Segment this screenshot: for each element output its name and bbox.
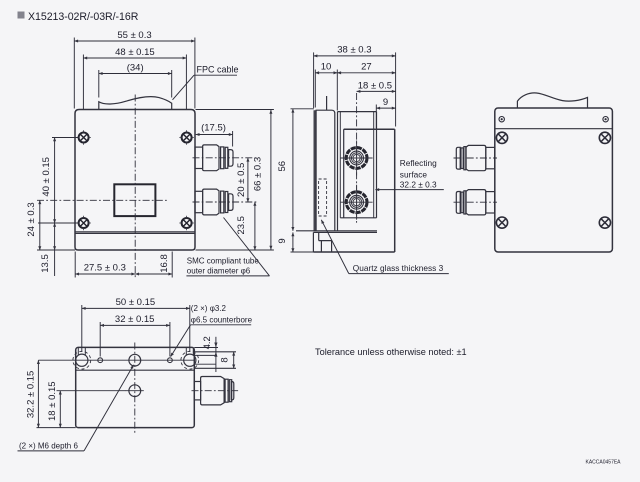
side fitting circle 1 [341,141,373,176]
back small screw left [499,117,504,122]
svg-text:8: 8 [220,357,231,362]
dim 27.5 +-0.3 [74,252,76,278]
dim 40 +-0.15 [52,137,79,139]
bottom small hole left [98,358,103,363]
side foot outline [313,232,332,252]
bottom corner hole right [181,347,199,369]
back fitting 1 [456,145,494,170]
body front face line [337,112,339,231]
svg-text:48 ± 0.15: 48 ± 0.15 [115,47,155,58]
dim 10 [314,70,316,108]
bottom view body [76,347,195,427]
front body/flange junction lines [75,231,195,233]
svg-text:27.5 ± 0.3: 27.5 ± 0.3 [84,263,126,274]
svg-text:Quartz glass thickness 3: Quartz glass thickness 3 [353,263,444,273]
back screw top-left [496,132,507,143]
side vertical centerline [356,93,358,225]
dim 32 +-0.15 [99,322,101,357]
bottom M6 hole 2 [126,385,144,397]
dim 32.2 +-0.15 [37,427,76,429]
bottom vertical centerline [134,343,136,435]
dim 13.5 [54,223,56,250]
dim 18 +-0.5 [357,90,396,92]
svg-text:outer diameter φ6: outer diameter φ6 [187,266,251,275]
svg-text:KACCA0457EA: KACCA0457EA [586,459,622,465]
svg-text:32 ± 0.15: 32 ± 0.15 [115,314,155,325]
side body bottom edge [313,251,394,253]
back small screw right [603,117,608,122]
title bullet [18,12,25,19]
dim 8 [233,352,235,369]
svg-text:18 ± 0.5: 18 ± 0.5 [358,80,392,91]
svg-text:32.2 ± 0.15: 32.2 ± 0.15 [25,371,36,418]
quartz glass edge (thick) [314,110,316,231]
svg-text:20 ± 0.5: 20 ± 0.5 [236,163,247,197]
front central window rect [114,184,155,216]
SMC fitting 1 front [195,145,233,171]
svg-text:9: 9 [277,238,288,243]
svg-text:38 ± 0.3: 38 ± 0.3 [337,45,371,56]
bottom stub lines [194,351,236,353]
dim 23.5 [254,202,256,250]
mount plate right edge [376,112,378,218]
mount plate inner left edge [339,112,341,218]
dim 24 +-0.3 [37,249,75,251]
svg-text:φ6.5 counterbore: φ6.5 counterbore [191,315,253,324]
svg-text:4.2: 4.2 [202,336,213,349]
dim 27 [337,72,395,74]
dim 9 top [375,105,377,129]
back fitting 2 [456,190,494,215]
svg-text:Tolerance unless otherwise not: Tolerance unless otherwise noted: ±1 [315,347,467,357]
svg-text:9: 9 [383,97,388,108]
SMC fitting 2 front [195,189,233,215]
front screw top-left [76,130,91,145]
hidden quartz window dashes [319,179,327,216]
svg-text:(2 ×) φ3.2: (2 ×) φ3.2 [191,304,227,313]
svg-text:surface: surface [400,169,428,179]
dim 50 +-0.15 [81,305,83,352]
back FPC cable [517,93,587,108]
dim 4.2 [194,347,218,349]
side body right edge [394,129,396,252]
svg-text:23.5: 23.5 [236,216,247,235]
svg-text:10: 10 [321,62,332,73]
back screw top-right [599,132,610,143]
bottom strip line [76,369,195,371]
svg-text:50 ± 0.15: 50 ± 0.15 [116,297,156,308]
front view body outline [75,110,195,251]
svg-text:(2 ×) M6 depth 6: (2 ×) M6 depth 6 [19,441,78,450]
svg-text:27: 27 [361,62,372,73]
back fitting 2 centerline [454,201,498,203]
plate underside line [296,230,377,232]
svg-text:18 ± 0.15: 18 ± 0.15 [47,381,58,421]
mount plate inner right edge [373,112,375,218]
back fitting 1 centerline [454,157,498,159]
bottom M6 hole 1 [129,354,141,366]
dim 16.8 [171,252,173,278]
bottom fitting centerline [192,390,239,392]
back view body [495,108,613,252]
dim 55 +-0.3 [73,38,75,109]
bottom fitting [194,377,234,405]
svg-text:(17.5): (17.5) [201,123,226,134]
svg-text:SMC compliant tube: SMC compliant tube [187,257,260,266]
svg-text:16.8: 16.8 [159,254,170,273]
svg-text:FPC cable: FPC cable [197,64,239,74]
svg-text:66 ± 0.3: 66 ± 0.3 [253,157,264,191]
svg-text:13.5: 13.5 [40,254,51,273]
front horizontal centerline [37,199,167,201]
FPC cable stub side view [326,96,328,110]
dim 38 +-0.3 [313,52,315,108]
mount plate top edge [338,111,377,113]
svg-text:X15213-02R/-03R/-16R: X15213-02R/-03R/-16R [28,11,139,23]
back screw bottom-right [599,217,610,228]
svg-text:32.2 ± 0.3: 32.2 ± 0.3 [400,180,437,190]
dim 66 +-0.3 [196,109,274,111]
front screw top-right [179,130,194,145]
bottom hole row centerline [38,359,194,361]
fitting 2 centerline [193,201,258,203]
bottom corner hole left [73,347,91,369]
front vertical centerline [134,95,136,278]
svg-text:56: 56 [277,161,288,172]
mount plate bottom edge [340,217,376,219]
svg-text:(34): (34) [127,62,144,73]
svg-text:24 ± 0.3: 24 ± 0.3 [26,202,37,236]
dim 56 [291,108,315,110]
side body top edge [344,128,395,130]
FPC cable front view [99,97,172,110]
front screw bottom-right [179,216,194,231]
dim 18 +-0.15 [57,390,127,392]
side fitting circle 2 [341,185,373,220]
svg-text:55 ± 0.3: 55 ± 0.3 [117,30,151,41]
fitting 1 centerline [193,157,258,159]
dim 20 +-0.5 [247,158,249,202]
back top strip [495,128,613,130]
svg-text:40 ± 0.15: 40 ± 0.15 [41,157,52,197]
bottom small hole right [168,358,173,363]
front screw bottom-left [76,216,91,231]
svg-text:Reflecting: Reflecting [400,158,437,168]
back screw bottom-left [496,217,507,228]
dim 9 bottom [291,251,314,253]
dim (34) [98,70,100,98]
window plate [316,110,335,231]
side body top-left corner [343,129,345,218]
dim 48 +-0.15 [82,55,84,110]
